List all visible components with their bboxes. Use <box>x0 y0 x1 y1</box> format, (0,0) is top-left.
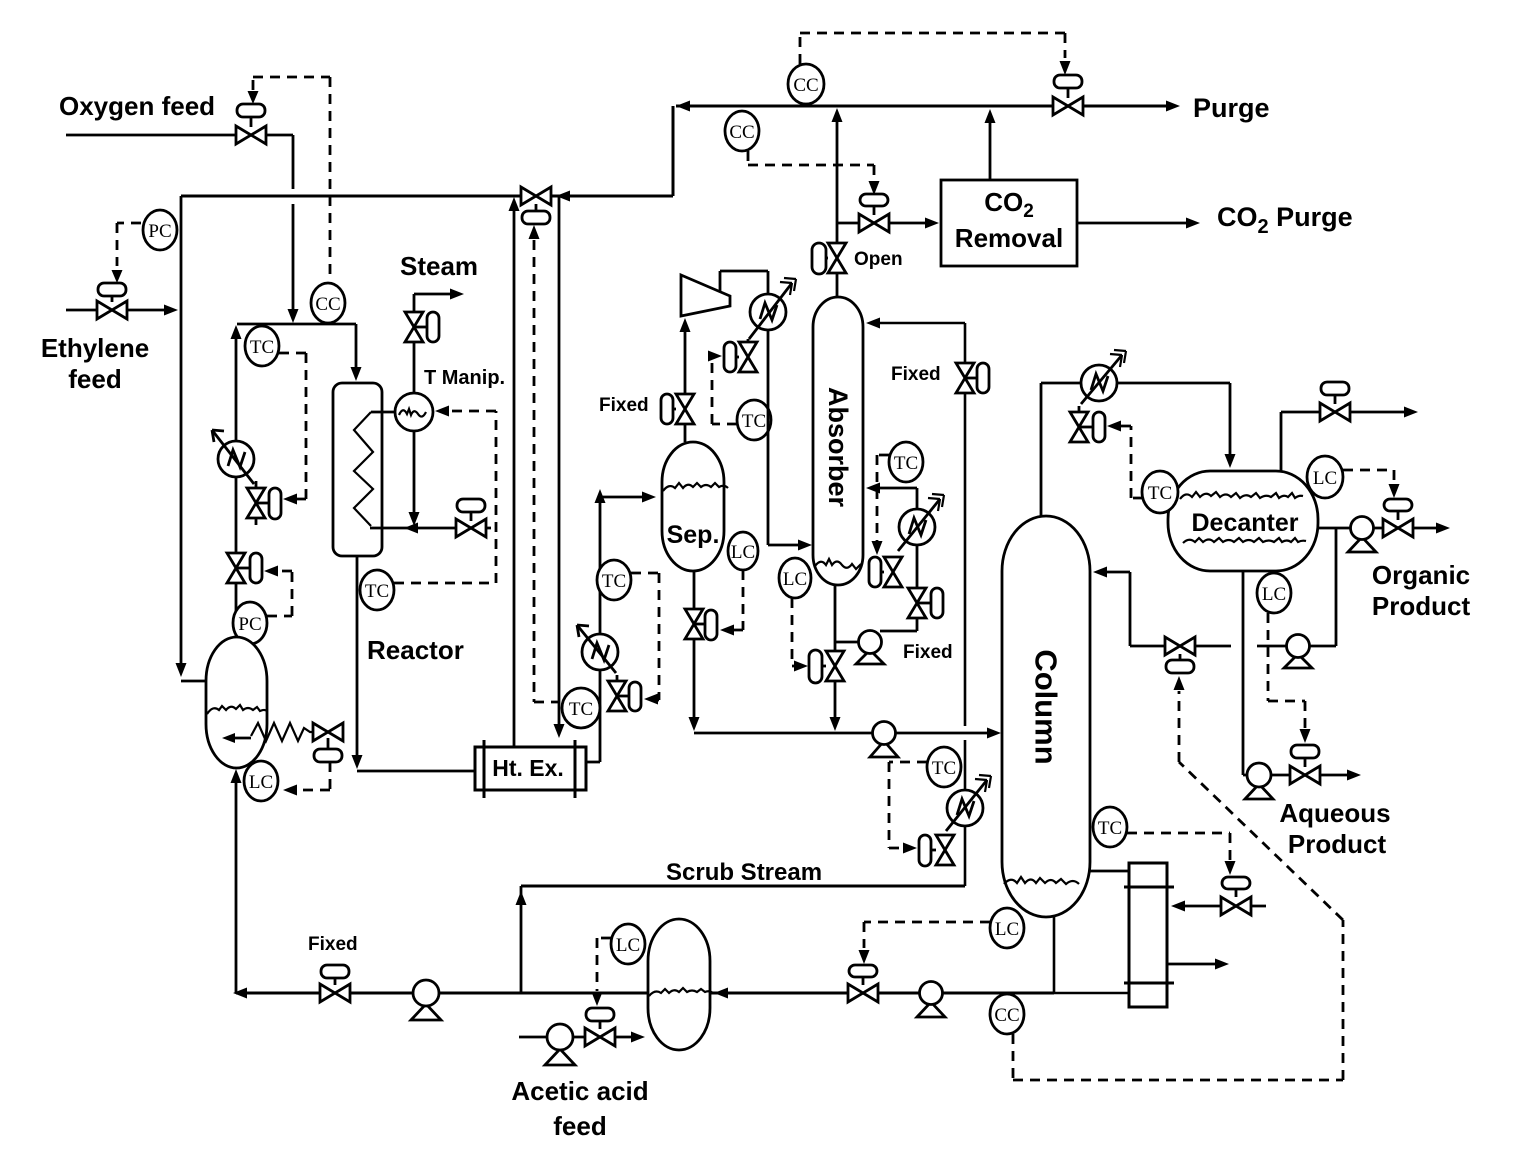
node arrow into V5 actuator <box>869 181 880 195</box>
node arrow right vent out <box>1404 407 1418 418</box>
signal CC to purge valve (dashed) <box>800 33 1065 64</box>
valve V4 purge <box>1053 75 1083 115</box>
svg-text:TC: TC <box>742 411 766 432</box>
vessel absorber <box>813 297 863 585</box>
node arrow right into buffer (acetic feed) <box>631 1032 645 1043</box>
pump P2 absorber pumparound pump <box>856 631 884 665</box>
controller LC decanter organic level <box>1307 456 1343 498</box>
pump P6 aqueous pump <box>1245 763 1273 799</box>
wire recycle header left <box>181 195 673 198</box>
signal TC to W2 (dashed) <box>279 353 306 499</box>
signal TC to W6 (dashed) <box>708 355 737 424</box>
svg-text:CC: CC <box>994 1005 1019 1026</box>
signal LC to V15 (dashed) <box>864 922 990 948</box>
node arrow left into absorber top <box>866 318 880 329</box>
wire CO2 removal feed <box>837 222 926 225</box>
valve V12 vent <box>1320 382 1350 421</box>
svg-text:CC: CC <box>315 294 340 315</box>
pump P4 organic pump <box>1348 517 1376 553</box>
controller PC vaporizer pressure <box>233 602 267 644</box>
vessel column <box>1002 516 1090 917</box>
wire pumparound suction and discharge <box>835 620 917 642</box>
valve V13 organic product <box>1383 499 1413 537</box>
heat-exchanger E5 scrub cooler <box>946 775 991 831</box>
node arrow left into column (reflux) <box>1093 567 1107 578</box>
node oxygen joins reactor feed (arrow down) <box>288 309 299 323</box>
svg-text:Fixed: Fixed <box>599 395 649 416</box>
node arrow down to column feed line <box>689 717 700 731</box>
valve W9 absorber bottoms <box>809 650 844 683</box>
heat-exchanger E2 separator feed cooler <box>577 625 618 673</box>
unit CO2 Removal box <box>941 180 1077 266</box>
node arrow right aqueous product <box>1347 770 1361 781</box>
node arrow right Purge <box>1166 101 1180 112</box>
svg-text:LC: LC <box>995 919 1019 940</box>
valve V2 ethylene feed control <box>97 283 127 319</box>
valve W10 pumparound cooler utility <box>869 557 902 587</box>
wire reboiler steam line <box>1183 905 1266 908</box>
node arrow down into decanter <box>1225 454 1236 468</box>
controller CC recycle composition <box>725 111 759 151</box>
wire steam drum to steam valve <box>413 342 416 393</box>
node arrow up into purge header <box>832 108 843 122</box>
vessel vaporizer <box>206 637 267 768</box>
heat-exchanger Ht. Ex. FEHE <box>475 740 586 798</box>
signal LC to W9 (dashed) <box>792 598 794 666</box>
node arrow into T Manip <box>435 406 449 417</box>
wire separator bottoms <box>693 571 696 722</box>
wire acetic acid feed line <box>519 1036 631 1039</box>
valve W7 Fixed absorber wash <box>956 363 989 393</box>
svg-text:Sep.: Sep. <box>667 521 720 549</box>
controller LC separator level <box>728 532 758 570</box>
signal LC to aqueous valve (dashed) <box>1268 613 1305 728</box>
node arrow up into vaporizer bottom <box>231 769 242 783</box>
wire CO2 purge line <box>1077 222 1186 225</box>
controller TC FEHE outlet temp <box>562 688 600 728</box>
valve W13 condenser utility <box>1070 406 1105 442</box>
controller CC purge composition <box>788 64 824 104</box>
valve V11 reboiler steam <box>1221 877 1251 915</box>
heat-exchanger E4 pumparound cooler <box>898 494 944 551</box>
vessel separator Sep. <box>662 442 728 571</box>
node arrow right reboiler outlet <box>1215 959 1229 970</box>
svg-text:TC: TC <box>365 581 389 602</box>
svg-text:Reactor: Reactor <box>367 635 464 665</box>
wire absorber bottoms <box>834 585 837 724</box>
heat-exchanger E6 condenser <box>1081 350 1126 404</box>
node arrow into LC <box>283 785 297 796</box>
svg-text:feed: feed <box>68 364 121 394</box>
valve W4 Fixed separator overhead <box>661 394 694 424</box>
svg-text:TC: TC <box>250 337 274 358</box>
valve V9 Fixed recycle <box>320 965 350 1002</box>
node arrow left at header corner <box>676 101 690 112</box>
node arrow into W9 actuator <box>794 661 808 672</box>
valve W3 steam outlet <box>405 312 439 342</box>
wire column bottoms <box>1054 917 1129 993</box>
signal TC to reboiler valve (dashed) <box>1127 833 1230 860</box>
svg-text:Fixed: Fixed <box>903 642 953 663</box>
signal PC to W1 (dashed) <box>267 571 292 616</box>
svg-text:Steam: Steam <box>400 251 478 281</box>
wire scrub stream line <box>521 885 965 888</box>
node arrow up into V3 actuator <box>529 225 540 239</box>
node arrow down reactor outlet <box>352 755 363 769</box>
svg-text:Purge: Purge <box>1193 93 1270 123</box>
controller TC decanter temp <box>1142 471 1178 513</box>
svg-text:LC: LC <box>731 542 755 563</box>
node arrow into V14 actuator <box>1300 729 1311 743</box>
valve V3 FEHE bypass <box>521 187 551 224</box>
controller LC absorber level <box>779 558 811 598</box>
node arrow down into FEHE <box>554 724 565 738</box>
svg-text:Oxygen feed: Oxygen feed <box>59 91 215 121</box>
pump P8 acetic acid feed pump <box>545 1024 575 1065</box>
wire reactor cooling coil zigzag <box>354 412 373 526</box>
node arrow right organic product <box>1436 523 1450 534</box>
svg-text:LC: LC <box>1313 468 1337 489</box>
signal CC to reflux valve (dashed) <box>1013 691 1343 1080</box>
wire bottoms recycle line <box>236 992 1054 995</box>
node arrow left at bottoms line end <box>233 988 247 999</box>
wire header corner down to recycle <box>672 106 675 196</box>
valve W12 scrub cooler utility <box>919 835 954 866</box>
svg-text:T Manip.: T Manip. <box>424 367 505 389</box>
pump P5 reflux pump <box>1284 635 1312 669</box>
node arrow up into reactor feed line <box>231 325 242 339</box>
svg-text:CC: CC <box>729 122 754 143</box>
valve W5 cooler utility <box>608 675 641 711</box>
svg-text:Product: Product <box>1288 829 1387 859</box>
controller LC column level <box>990 908 1024 948</box>
wire compressor discharge <box>720 271 768 294</box>
node arrow up on separator feed <box>595 489 606 503</box>
valve V15 column bottoms <box>848 965 878 1002</box>
node arrow Steam out <box>450 289 464 300</box>
wire recycle downcomer to vaporizer <box>180 196 183 672</box>
signal TC to bypass valve (dashed) <box>534 240 560 702</box>
wire ethylene feed line <box>66 309 166 312</box>
node arrow down into reactor <box>351 367 362 381</box>
wire reactor feed drop <box>355 324 358 374</box>
svg-text:TC: TC <box>602 571 626 592</box>
valve W1 vapor line PC valve <box>227 553 262 583</box>
vessel acetic acid buffer <box>648 919 713 1050</box>
svg-text:Scrub Stream: Scrub Stream <box>666 859 822 886</box>
signal LC to acetic valve (dashed) <box>597 938 611 991</box>
wire organic product line <box>1318 527 1436 530</box>
controller TC absorber inlet temp <box>737 400 771 440</box>
controller TC separator feed temp <box>597 560 631 600</box>
node arrow into W6 actuator <box>708 351 722 362</box>
wire FEHE hot outlet to cooler <box>586 502 600 762</box>
node arrow into W12 actuator <box>903 843 917 854</box>
wire reflux draw from organic line <box>1335 528 1338 646</box>
svg-text:Product: Product <box>1372 591 1471 621</box>
svg-text:Aqueous: Aqueous <box>1279 798 1390 828</box>
wire cooled gas to absorber <box>768 330 800 545</box>
node arrow left on cooling line <box>404 523 418 534</box>
node arrow into W8 actuator <box>720 625 734 636</box>
node arrow into V13 actuator <box>1389 484 1400 498</box>
svg-text:Ethylene: Ethylene <box>41 333 149 363</box>
node arrow left into reboiler <box>1171 901 1185 912</box>
wire steam outlet <box>414 294 451 312</box>
wire column overhead to decanter <box>1041 383 1230 516</box>
svg-text:TC: TC <box>569 699 593 720</box>
node arrow left into bypass valve <box>556 191 570 202</box>
wire CO2 removal return <box>989 114 992 180</box>
signal TC to W13 (dashed) <box>1120 426 1143 498</box>
controller CC column bottoms composition <box>990 994 1024 1034</box>
wire decanter vent <box>1281 412 1404 471</box>
wire separator feed line <box>600 496 643 499</box>
svg-text:LC: LC <box>783 569 807 590</box>
wire scrub riser and wash line <box>878 323 965 886</box>
node arrow into V1 actuator <box>248 91 259 104</box>
svg-text:LC: LC <box>616 935 640 956</box>
node arrow into V8 actuator <box>592 992 603 1006</box>
valve W8 separator bottoms <box>685 609 717 640</box>
valve V1 oxygen feed control <box>236 104 266 144</box>
compressor K1 <box>681 275 730 316</box>
heat-exchanger E1 vaporizer superheater <box>212 430 254 484</box>
controller TC column tray temp <box>1093 807 1127 847</box>
node arrow up into V10 actuator <box>1174 676 1185 690</box>
controller CC reactor feed <box>311 283 345 323</box>
heat-exchanger E3 compressor aftercooler <box>749 278 796 339</box>
svg-text:feed: feed <box>553 1111 606 1141</box>
node arrow right into absorber base <box>798 540 812 551</box>
node arrow right into separator <box>642 492 656 503</box>
valve V10 reflux <box>1165 637 1195 673</box>
vessel decanter <box>1168 471 1318 571</box>
valve W14 Open absorber overhead <box>812 243 846 274</box>
wire column to reboiler top <box>1090 870 1129 873</box>
controller TC scrub temp <box>927 747 961 787</box>
svg-text:Ht. Ex.: Ht. Ex. <box>492 755 564 781</box>
valve W2 superheater utility <box>247 481 281 525</box>
node arrow left into buffer (bottoms return) <box>714 988 728 999</box>
node arrow into V2 actuator <box>112 270 123 283</box>
valve W11 Fixed pumparound <box>908 588 943 618</box>
valve V14 aqueous product <box>1290 745 1320 784</box>
node arrow down to cooling line <box>409 512 420 526</box>
svg-text:TC: TC <box>1098 818 1122 839</box>
wire separator overhead <box>684 325 687 442</box>
node arrow up into header <box>509 197 520 211</box>
node arrow right CO2 purge <box>1186 218 1200 229</box>
wire absorber overhead <box>836 113 839 297</box>
wire coil to steam drum <box>371 411 395 414</box>
wire FEHE cold outlet riser <box>513 210 516 747</box>
node arrow down into W10 actuator <box>872 541 883 555</box>
pump P1 column feed pump <box>870 722 898 758</box>
svg-text:Organic: Organic <box>1372 560 1470 590</box>
node arrow up into compressor <box>680 318 691 332</box>
controller TC reactor outlet temp <box>360 570 394 610</box>
svg-text:TC: TC <box>894 453 918 474</box>
wire vaporizer internal arrow and coil to valve <box>222 723 313 743</box>
wire steam drum downcomer <box>413 431 416 513</box>
svg-text:Decanter: Decanter <box>1192 509 1299 537</box>
wire reflux line <box>1105 572 1336 646</box>
node arrow into W5 actuator <box>644 694 658 705</box>
node arrow right into CO2 box <box>925 218 939 229</box>
signal TC to T Manip (dashed) <box>394 411 496 583</box>
node arrow into V15 actuator <box>859 950 870 964</box>
node arrow left into absorber <box>866 483 880 494</box>
controller PC ethylene <box>143 210 177 250</box>
wire oxygen drop line <box>292 135 295 312</box>
signal LC to W8 (dashed) <box>734 570 743 630</box>
svg-text:PC: PC <box>148 221 171 242</box>
wire absorber pumparound return <box>878 488 917 620</box>
svg-text:TC: TC <box>1148 483 1172 504</box>
svg-text:Fixed: Fixed <box>891 364 941 385</box>
signal vaporizer valve to LC (dashed) <box>295 762 330 790</box>
node arrow into V11 actuator <box>1225 861 1236 875</box>
controller LC buffer level <box>611 924 645 964</box>
wire column feed line <box>694 732 997 735</box>
valve V3b vaporizer liquid feed valve <box>313 723 343 762</box>
svg-text:Removal: Removal <box>955 223 1063 253</box>
svg-text:Acetic acid: Acetic acid <box>511 1076 648 1106</box>
wire aqueous product line <box>1243 774 1347 777</box>
pump P3 column bottoms pump <box>917 982 945 1018</box>
node ethylene joins recycle (arrow right) <box>164 305 178 316</box>
svg-text:TC: TC <box>932 758 956 779</box>
svg-text:Fixed: Fixed <box>308 934 358 955</box>
valve V5 CO2 removal feed <box>859 194 889 232</box>
wire FEHE cold inlet drop <box>558 196 561 724</box>
node arrow right into column <box>987 728 1001 739</box>
wire reboiler outlet arrow <box>1167 963 1215 966</box>
node arrow into W13 actuator <box>1107 421 1121 432</box>
wire purge header <box>676 105 1166 108</box>
wire oxygen feed line <box>66 134 293 137</box>
pump P7 recycle pump <box>411 980 441 1020</box>
wire vaporizer bottom feed riser <box>235 781 238 993</box>
wire vaporizer inlet stub <box>181 680 206 683</box>
wire reactor cooling water line <box>370 527 491 530</box>
node arrow down into vaporizer inlet <box>176 663 187 677</box>
valve W6 aftercooler utility <box>724 339 757 372</box>
svg-text:Column: Column <box>1029 649 1064 764</box>
controller LC decanter aqueous level <box>1257 573 1291 613</box>
valve V6 cooling water <box>456 499 486 537</box>
node arrow into W2 actuator <box>283 494 297 505</box>
signal TC to W10 (dashed) <box>877 455 889 542</box>
svg-text:LC: LC <box>1262 584 1286 605</box>
svg-text:LC: LC <box>249 772 273 793</box>
controller LC vaporizer level <box>244 761 278 801</box>
svg-text:Absorber: Absorber <box>823 387 853 508</box>
wire reactor outlet <box>357 556 475 771</box>
valve V8 acetic acid feed <box>585 1008 615 1046</box>
signal CC to CO2 valve (dashed) <box>748 151 874 178</box>
wire decanter aqueous underflow <box>1242 571 1245 775</box>
reactor vessel <box>333 383 382 556</box>
controller TC absorber mid temp <box>889 442 923 482</box>
signal TC to W5 (dashed) <box>631 573 659 700</box>
wire scrub riser from bottoms line <box>520 886 523 993</box>
node arrow up on scrub riser <box>516 891 527 905</box>
wire vaporizer vapor line <box>235 330 238 637</box>
svg-text:CC: CC <box>793 75 818 96</box>
wire reactor feed line <box>237 323 356 326</box>
node arrow up into header from CO2 removal <box>985 109 996 123</box>
heater T Manip steam drum <box>395 393 433 431</box>
signal CC to oxygen valve (dashed) <box>253 77 330 280</box>
signal PC to ethylene valve (dashed) <box>117 223 141 266</box>
signal TC to W12 (dashed) <box>889 762 927 848</box>
heat-exchanger reboiler <box>1124 863 1174 1007</box>
svg-text:Open: Open <box>854 249 903 270</box>
controller TC vaporizer vapor temp <box>245 326 279 366</box>
node arrow into V4 actuator <box>1060 61 1071 75</box>
svg-text:PC: PC <box>238 614 261 635</box>
node arrow into W1 actuator <box>264 566 278 577</box>
signal LC to organic valve (dashed) <box>1343 470 1394 484</box>
node arrow down to column feed line <box>830 717 841 731</box>
